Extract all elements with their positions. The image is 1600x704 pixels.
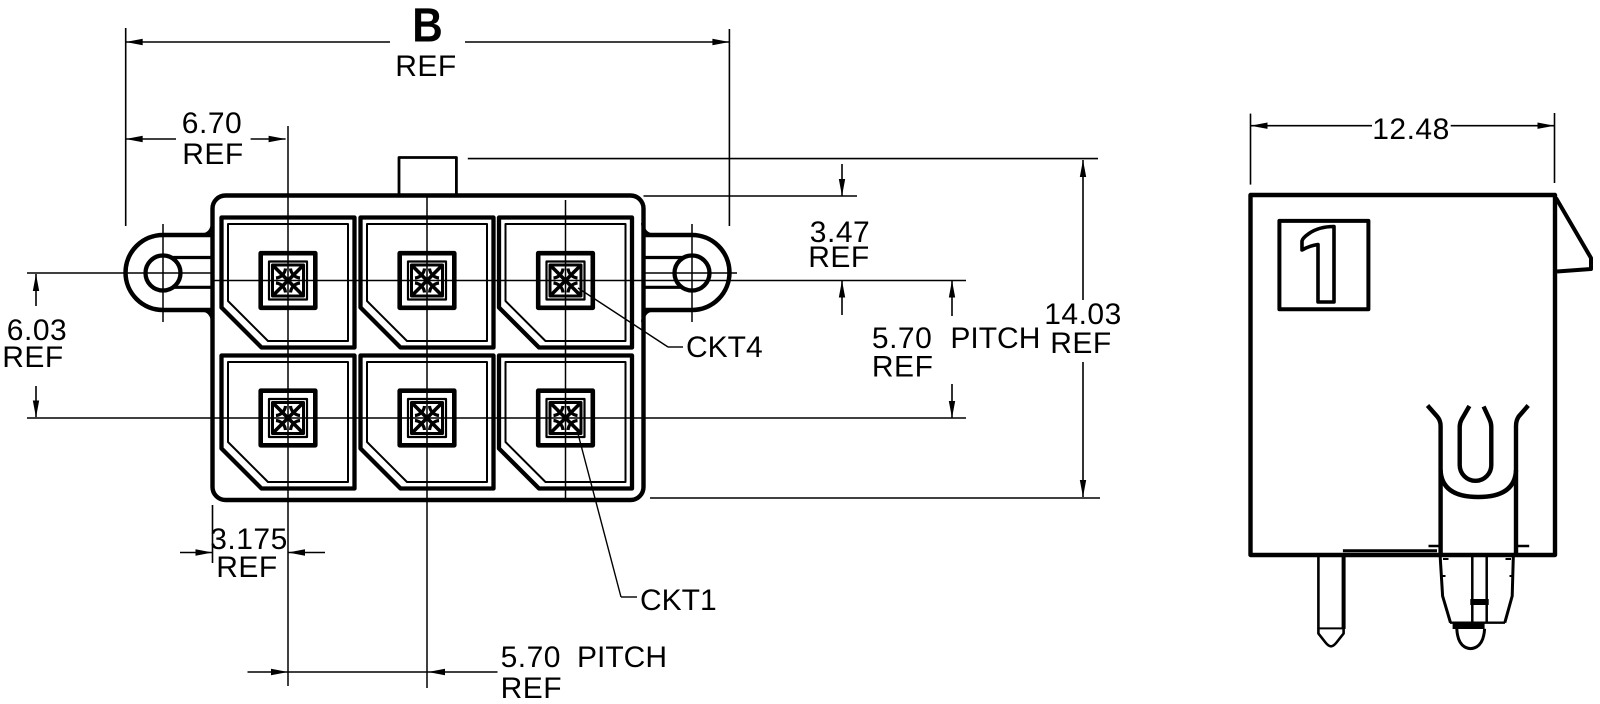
svg-text:REF: REF: [872, 351, 934, 384]
svg-text:CKT4: CKT4: [686, 331, 763, 364]
svg-text:6.70: 6.70: [182, 107, 242, 140]
svg-text:5.70: 5.70: [501, 641, 561, 674]
svg-text:12.48: 12.48: [1372, 113, 1450, 146]
svg-text:B: B: [412, 0, 443, 52]
svg-text:REF: REF: [395, 50, 457, 83]
svg-text:REF: REF: [1050, 327, 1112, 360]
svg-text:REF: REF: [182, 138, 244, 171]
svg-text:REF: REF: [808, 241, 870, 274]
svg-text:REF: REF: [501, 672, 562, 704]
svg-text:REF: REF: [216, 551, 278, 584]
svg-text:PITCH: PITCH: [950, 322, 1040, 355]
svg-text:PITCH: PITCH: [577, 641, 667, 674]
svg-text:REF: REF: [2, 341, 64, 374]
svg-text:CKT1: CKT1: [640, 584, 717, 617]
